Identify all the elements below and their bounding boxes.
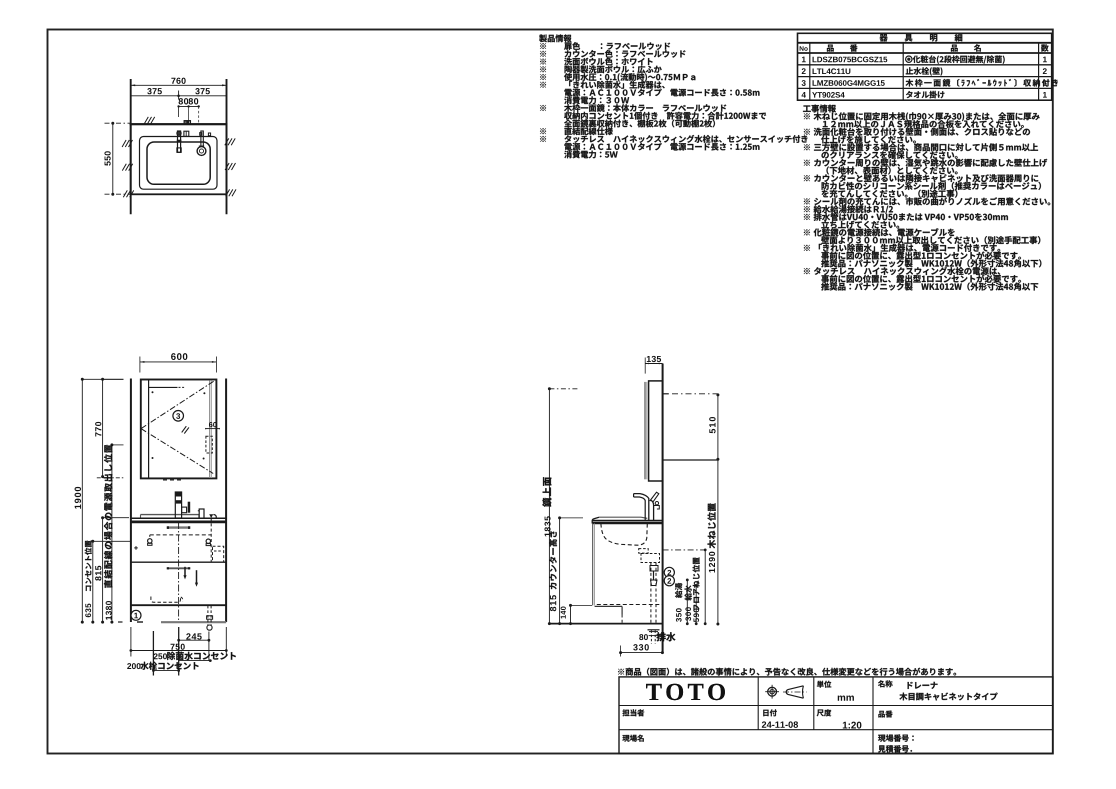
front outlet arrow at counter xyxy=(209,514,213,518)
plan dim 375/375 line xyxy=(131,95,227,97)
hidden water valve left xyxy=(149,535,151,539)
balloon circle 1 xyxy=(131,610,141,620)
plan dim 550 text xyxy=(104,151,110,165)
plan dim extension lines under 80/80 xyxy=(178,106,180,117)
plan link line to spout xyxy=(199,145,204,147)
plan view: right wall line xyxy=(226,79,228,214)
mirror bottom extension dashes xyxy=(97,477,124,479)
plan dim 760 text xyxy=(171,78,185,84)
title block row2 xyxy=(622,709,644,716)
counter bottom band line xyxy=(131,521,226,524)
front elevation: floor line xyxy=(161,621,226,623)
front faucet body xyxy=(175,492,181,518)
plan hatch right wall upper xyxy=(225,138,229,145)
side counter profile xyxy=(592,519,663,521)
side cabinet front gray lines xyxy=(592,524,594,606)
product info text block xyxy=(539,34,571,42)
plan view: left wall line xyxy=(130,79,132,214)
mirror cabinet left stile line xyxy=(148,380,150,479)
shadow dashes under mirror cabinet xyxy=(163,479,184,481)
front elevation: right wall line xyxy=(225,379,227,623)
plan counter inner edge rounded xyxy=(140,137,218,190)
side screw stub top xyxy=(663,393,669,395)
side dim 135 xyxy=(645,363,662,365)
front dim 60 text and line xyxy=(209,422,217,427)
side toe kick xyxy=(595,605,623,607)
side dim 590 floor screw xyxy=(704,550,706,624)
front dim 750 xyxy=(131,650,226,652)
center dash-dot line xyxy=(178,522,180,620)
plan hatch right wall mid xyxy=(225,163,229,170)
side dim 80 drain xyxy=(639,634,648,640)
side floor line xyxy=(549,623,662,625)
front dim 245 xyxy=(179,639,209,641)
mirror handle hidden rect xyxy=(206,436,212,453)
counter top line xyxy=(131,517,226,519)
front left dim 635 outlet line xyxy=(92,541,94,622)
front dim 600 line xyxy=(140,361,217,363)
plan dim 550 line xyxy=(112,123,114,194)
plan hatch left wall bottom xyxy=(123,190,127,197)
side screw stub bottom xyxy=(663,459,718,461)
plan hatch left wall lower xyxy=(122,164,126,171)
plan dim 375 left text xyxy=(147,88,162,94)
mirror door swing dash-dot lines xyxy=(141,381,214,428)
mirror cabinet box xyxy=(141,380,217,479)
drain arrow 1 xyxy=(184,567,186,576)
side mirror door panel double line xyxy=(644,382,646,479)
plan wash bowl outline xyxy=(147,142,210,184)
plan wall stop valve symbols xyxy=(184,121,187,125)
plan faucet top circle xyxy=(177,131,181,135)
mirror cabinet top shelf line xyxy=(149,386,178,388)
side dim 300 cold water xyxy=(695,585,697,623)
plan faucet base xyxy=(177,148,181,152)
mirror cabinet right double line xyxy=(209,380,211,478)
plan dim 8080 text xyxy=(179,98,189,104)
plan sterilized-water spout circle xyxy=(197,147,206,156)
front sterilized-water spout xyxy=(199,509,204,518)
upper drawer handle xyxy=(167,526,190,528)
title block row3 xyxy=(622,735,643,742)
plan dim 760 line xyxy=(131,84,227,86)
plan dim 375 right text xyxy=(195,88,210,94)
front dim 200 faucet outlet label xyxy=(127,663,140,669)
side mirror cabinet box xyxy=(649,381,663,481)
front faucet spout xyxy=(182,507,187,513)
cabinet bottom double line xyxy=(131,604,226,606)
front dim 250 sterilized outlet label xyxy=(154,653,167,659)
side counter rim line xyxy=(599,516,641,518)
front left dim 1380 line xyxy=(111,445,113,622)
side valve hardware xyxy=(650,566,658,572)
front dim 635 outlet text xyxy=(85,540,92,590)
plan dim 550 extension dashes xyxy=(105,122,131,124)
TOTO logo xyxy=(646,684,725,700)
side faucet xyxy=(634,494,649,521)
side dim 1290 screw position xyxy=(717,459,719,624)
side drain hidden parts xyxy=(639,549,649,554)
balloon circle 3 xyxy=(173,411,184,422)
plan hatch top wall xyxy=(144,117,148,124)
title block row lines xyxy=(619,705,1053,707)
plan faucet handle band xyxy=(177,140,182,143)
knee recess hidden outline xyxy=(151,597,181,603)
front left dim 1900 line xyxy=(81,379,83,622)
drain arrow 2 xyxy=(196,570,198,583)
side elevation: wall line xyxy=(662,364,664,653)
side stop valve balloons 2 xyxy=(664,567,674,577)
front dim 770 text xyxy=(95,422,101,437)
side left dim 1835 mirror top xyxy=(548,389,550,624)
plan faucet body xyxy=(178,131,181,152)
plan sterilized-water unit bar xyxy=(201,131,203,146)
hidden water valve right xyxy=(206,539,210,543)
plan sensor box xyxy=(184,131,189,136)
front dim 815 text xyxy=(95,566,101,581)
plan counter rectangle xyxy=(131,124,227,194)
outlet symbol bottom right xyxy=(207,606,209,626)
third angle projection symbol circle xyxy=(768,687,777,696)
front dim 600 extension lines xyxy=(139,357,141,373)
hidden trap box xyxy=(213,546,224,562)
equipment table headers xyxy=(800,46,808,51)
counter rim line xyxy=(141,514,199,516)
third angle projection symbol cone xyxy=(786,686,803,698)
side dim 510 xyxy=(717,395,719,459)
hidden plumbing horizontal dash line xyxy=(150,534,211,536)
mirror glass symbol xyxy=(182,426,187,432)
front dim 1380 wiring text xyxy=(106,601,112,620)
plan sterilized-water small squares xyxy=(200,133,202,136)
side dim 140 toe kick xyxy=(570,605,572,623)
front dim 600 text xyxy=(171,353,187,360)
title block frame xyxy=(619,677,1053,754)
side floor screw dash-dot level line xyxy=(663,549,706,551)
equipment table rows xyxy=(802,57,806,63)
cabinet drawer divider line xyxy=(131,561,226,563)
side cabinet bottom dashed line xyxy=(597,604,663,606)
disclaimer note above title block xyxy=(618,668,956,676)
equipment table column lines xyxy=(809,43,811,100)
side drain below floor flange xyxy=(648,629,660,631)
title block unit cell xyxy=(817,681,831,688)
front left dim 815 line xyxy=(102,518,104,622)
equipment row1 name with sterilize mark xyxy=(906,56,912,62)
mirror hinge dots xyxy=(152,391,154,393)
side dim 330 xyxy=(621,652,663,654)
plan dim 80/80 line xyxy=(179,105,199,107)
side dim 350 hot water xyxy=(686,580,688,624)
front dim 1900 text xyxy=(75,487,82,509)
lower drawer handle xyxy=(167,567,190,569)
front bottom extension lines xyxy=(130,627,132,657)
equipment table frame xyxy=(798,33,1052,100)
plan hatch left wall upper xyxy=(122,140,126,147)
plus mark xyxy=(134,547,138,549)
equipment table title xyxy=(880,34,963,42)
construction info text block xyxy=(803,105,836,113)
front left dim 770 line xyxy=(102,379,104,476)
side left dim 815 counter height xyxy=(559,518,561,624)
front elevation: left wall line xyxy=(130,379,132,623)
hidden line from outlet arrow xyxy=(210,518,212,562)
side bowl hidden outline xyxy=(601,524,647,546)
plan hatch right wall bottom xyxy=(226,189,230,196)
title block name cell xyxy=(878,680,892,687)
title block column lines xyxy=(757,677,759,730)
